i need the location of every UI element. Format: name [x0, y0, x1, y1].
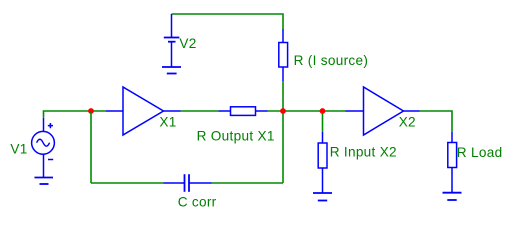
svg-text:C corr: C corr	[178, 194, 217, 209]
wire X1 output to R Output X1	[181, 110, 219, 112]
ground for R Input X2	[313, 181, 332, 201]
svg-text:V1: V1	[10, 141, 27, 156]
wire top rail V2 to R (I source)	[172, 14, 284, 29]
resistor R (I source)	[279, 29, 288, 81]
resistor R Load	[448, 132, 457, 181]
ground for V2	[162, 67, 181, 74]
op-amp buffer X2	[346, 87, 420, 135]
svg-text:R Input X2: R Input X2	[330, 144, 397, 159]
op-amp buffer X1	[106, 87, 181, 135]
svg-text:X2: X2	[399, 115, 416, 130]
node B junction dot at R Output X1 / R (I source) / feedback	[280, 108, 286, 114]
wire V1 top to X1 input	[44, 111, 107, 118]
wire R (I source) bottom to node	[282, 81, 284, 111]
capacitor C corr	[164, 174, 212, 192]
ground for R Load	[443, 181, 462, 200]
svg-text:X1: X1	[159, 115, 176, 130]
resistor R Input X2	[318, 132, 327, 181]
wire R Output X1 to X2 input	[268, 110, 346, 112]
voltage source V2	[164, 14, 180, 67]
svg-text:V2: V2	[179, 36, 196, 51]
wire C corr to right vertical	[212, 182, 284, 184]
svg-text:R Load: R Load	[457, 145, 503, 160]
wire feedback right vertical	[282, 111, 284, 183]
ground for V1	[35, 178, 54, 185]
node A junction dot at V1/X1 branch	[88, 108, 94, 114]
svg-text:R Output X1: R Output X1	[197, 128, 275, 143]
svg-text:R (I source): R (I source)	[294, 53, 369, 68]
wire feedback left vertical	[90, 111, 92, 183]
wire feedback bottom left to C corr	[91, 182, 164, 184]
resistor R Output X1	[219, 107, 268, 116]
node C junction dot at R Input X2 branch	[320, 108, 326, 114]
wire node to R Input X2	[322, 111, 324, 132]
voltage source V1	[32, 118, 55, 178]
wire X2 output to R Load	[420, 111, 453, 132]
